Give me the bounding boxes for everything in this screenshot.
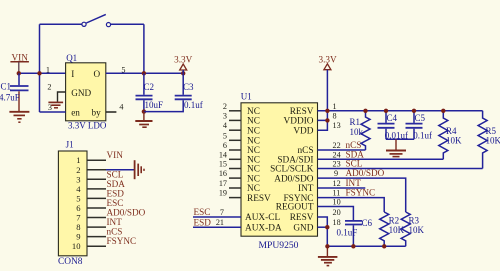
svg-text:4.7uF: 4.7uF — [0, 93, 20, 103]
wire AD0/SDO pin9 to R3 — [318, 178, 406, 212]
resistor R1 — [350, 111, 371, 150]
power port 3.3V (regulator output) — [174, 55, 192, 74]
svg-text:10K: 10K — [446, 136, 462, 146]
junction pin18 — [325, 225, 329, 229]
svg-text:NC: NC — [247, 137, 260, 147]
J1 pin stubs — [87, 160, 106, 246]
capacitor C6 — [337, 218, 373, 247]
wire J1.2 to earth — [106, 169, 135, 171]
svg-text:FSYNC: FSYNC — [346, 188, 376, 198]
svg-text:AD0/SDO: AD0/SDO — [274, 174, 314, 184]
svg-text:10K: 10K — [486, 136, 500, 146]
wire bottom ground rail — [327, 245, 405, 247]
svg-text:1: 1 — [333, 102, 337, 111]
svg-text:18: 18 — [333, 218, 341, 227]
svg-text:GND: GND — [71, 88, 91, 98]
junction C2 node — [142, 71, 146, 75]
junction R1/rail — [363, 109, 367, 113]
IC U1 MPU9250 — [241, 103, 318, 236]
svg-text:GND: GND — [293, 223, 313, 233]
svg-text:INT: INT — [298, 184, 314, 194]
svg-text:SCL/SCLK: SCL/SCLK — [270, 165, 314, 175]
svg-text:24: 24 — [333, 150, 341, 159]
svg-text:3: 3 — [48, 103, 52, 112]
svg-text:1: 1 — [76, 155, 80, 165]
svg-text:10: 10 — [72, 241, 81, 251]
svg-text:10K: 10K — [409, 225, 425, 235]
resistor R3 — [401, 212, 424, 246]
svg-text:C3: C3 — [183, 82, 194, 92]
svg-text:en: en — [71, 108, 80, 118]
switch lever — [86, 14, 106, 23]
svg-text:4: 4 — [119, 102, 123, 111]
svg-text:AD0/SDO: AD0/SDO — [346, 168, 385, 178]
U1 left pin numbers — [216, 102, 227, 227]
svg-text:FSYNC: FSYNC — [107, 236, 137, 246]
wire 3.3V rail — [318, 110, 483, 112]
svg-text:NC: NC — [247, 117, 260, 127]
svg-text:7: 7 — [220, 208, 224, 217]
svg-text:10uF: 10uF — [145, 100, 164, 110]
svg-text:3: 3 — [76, 174, 80, 184]
capacitor C4 — [378, 111, 409, 141]
ground under C4/C5 — [386, 139, 406, 156]
svg-text:by: by — [92, 108, 102, 118]
svg-text:ESC: ESC — [194, 207, 211, 217]
svg-text:6: 6 — [223, 141, 227, 150]
svg-text:C4: C4 — [387, 113, 398, 123]
junction R2 bottom — [382, 244, 386, 248]
svg-text:10k: 10k — [350, 127, 364, 137]
svg-text:15: 15 — [219, 160, 227, 169]
wire SCL pin23 to R5 — [318, 168, 483, 170]
svg-text:I: I — [71, 69, 74, 79]
svg-text:17: 17 — [219, 179, 227, 188]
svg-text:NC: NC — [247, 165, 260, 175]
ground bottom right — [318, 246, 338, 265]
resistor R4 — [439, 111, 462, 160]
svg-text:14: 14 — [219, 150, 227, 159]
svg-text:9: 9 — [334, 169, 338, 178]
wire en pin3 to switch leg — [40, 111, 66, 113]
capacitor C1 — [0, 73, 29, 111]
wire GND pin18 — [318, 226, 328, 228]
svg-text:VDD: VDD — [293, 126, 313, 136]
wire INT pin12 — [318, 187, 366, 189]
svg-text:C2: C2 — [144, 82, 155, 92]
svg-text:6: 6 — [76, 203, 81, 213]
power port 3.3V (U1 rail) — [319, 54, 337, 110]
ground under C2 — [135, 112, 152, 128]
svg-text:ESD: ESD — [194, 217, 212, 227]
wire ESD to AUX-DA — [193, 226, 241, 228]
svg-text:J1: J1 — [66, 139, 74, 149]
svg-text:5: 5 — [223, 131, 227, 140]
svg-text:R1: R1 — [350, 117, 361, 127]
switch S contacts — [82, 22, 86, 26]
wire top rail with switch legs — [40, 24, 144, 112]
svg-text:C5: C5 — [415, 113, 426, 123]
capacitor C2 — [136, 73, 164, 111]
svg-text:13: 13 — [333, 121, 341, 130]
svg-text:9: 9 — [76, 232, 80, 242]
wire ESC to AUX-CL — [193, 216, 241, 218]
wire VIN to Q1 pin1 — [19, 72, 66, 74]
svg-text:NC: NC — [247, 174, 260, 184]
junction ground rail left — [325, 244, 329, 248]
svg-text:O: O — [94, 69, 101, 79]
svg-text:2: 2 — [76, 165, 80, 175]
svg-text:RESV: RESV — [290, 107, 314, 117]
wire FSYNC pin11 to R2 — [318, 198, 385, 212]
svg-text:VIN: VIN — [107, 150, 124, 160]
svg-text:INT: INT — [346, 178, 362, 188]
svg-text:AUX-CL: AUX-CL — [245, 213, 280, 223]
svg-text:0.1uf: 0.1uf — [184, 100, 203, 110]
svg-text:16: 16 — [219, 169, 227, 178]
svg-text:SCL: SCL — [107, 169, 124, 179]
svg-text:Q1: Q1 — [66, 53, 77, 63]
svg-text:19: 19 — [219, 189, 227, 198]
svg-text:MPU9250: MPU9250 — [259, 240, 299, 251]
svg-text:AD0/SDO: AD0/SDO — [107, 208, 146, 218]
junction C4/rail — [384, 109, 388, 113]
svg-text:0.1uf: 0.1uf — [413, 131, 432, 141]
earth ground at J1.2 (rotated) — [135, 160, 144, 179]
svg-text:NC: NC — [247, 126, 260, 136]
svg-text:4: 4 — [76, 184, 81, 194]
svg-text:11: 11 — [333, 189, 341, 198]
svg-text:1: 1 — [46, 65, 50, 74]
svg-text:C1: C1 — [1, 82, 12, 92]
junction R4/rail — [441, 109, 445, 113]
svg-text:NC: NC — [247, 107, 260, 117]
svg-text:CON8: CON8 — [58, 257, 83, 267]
U1 pin names — [245, 107, 282, 233]
svg-text:2: 2 — [223, 102, 227, 111]
pin stub by pin4 — [106, 111, 117, 113]
regulator Q1 — [66, 63, 106, 121]
svg-text:3.3V: 3.3V — [319, 54, 337, 64]
svg-text:10: 10 — [333, 198, 341, 207]
wire RESV pin20 down — [318, 217, 328, 246]
svg-text:0.1uF: 0.1uF — [337, 227, 358, 237]
svg-text:21: 21 — [216, 218, 224, 227]
svg-text:ESD: ESD — [107, 188, 125, 198]
svg-text:22: 22 — [333, 141, 341, 150]
wire nCS pin22 to R1 — [318, 149, 366, 151]
svg-text:20: 20 — [333, 208, 341, 217]
power port VIN — [10, 52, 29, 73]
junction rail/pin1 — [325, 109, 329, 113]
junction C6 bottom — [351, 244, 355, 248]
wire Q1 pin2 to ground — [58, 92, 66, 102]
svg-text:VDDIO: VDDIO — [284, 117, 314, 127]
svg-text:AUX-DA: AUX-DA — [245, 223, 282, 233]
svg-text:8: 8 — [76, 222, 80, 232]
capacitor C3 — [175, 73, 203, 110]
junction C2 bottom — [142, 109, 146, 113]
svg-text:3.3V LDO: 3.3V LDO — [68, 121, 107, 131]
svg-text:R5: R5 — [486, 126, 497, 136]
wire C4-C5 bottoms — [386, 138, 414, 140]
resistor R5 — [478, 111, 500, 169]
U1 left pin stubs — [229, 111, 241, 198]
svg-text:R4: R4 — [446, 126, 457, 136]
svg-text:U1: U1 — [241, 92, 252, 102]
junction pin8 — [325, 118, 329, 122]
svg-text:23: 23 — [333, 160, 341, 169]
svg-text:5: 5 — [76, 193, 80, 203]
resistor R2 — [380, 212, 405, 246]
svg-text:INT: INT — [107, 217, 123, 227]
svg-text:4: 4 — [223, 121, 227, 130]
svg-text:SDA: SDA — [107, 179, 126, 189]
junction C3 node — [181, 71, 185, 75]
svg-text:SCL: SCL — [346, 159, 363, 169]
svg-text:REGOUT: REGOUT — [276, 203, 314, 213]
svg-text:nCS: nCS — [107, 227, 123, 237]
svg-text:7: 7 — [76, 213, 81, 223]
junction switch left leg — [37, 71, 41, 75]
ground under C1 — [9, 112, 29, 122]
wire REGOUT pin10 to C6 — [318, 207, 354, 221]
junction VIN/C1 — [17, 71, 21, 75]
wire C2 bottom to C3 bottom — [144, 100, 183, 111]
svg-text:2: 2 — [47, 82, 51, 91]
svg-text:8: 8 — [333, 111, 337, 120]
wire SDA pin24 to R4 — [318, 158, 444, 160]
junction C5/rail — [412, 109, 416, 113]
svg-text:12: 12 — [333, 179, 341, 188]
svg-text:RESV: RESV — [247, 194, 271, 204]
svg-text:VIN: VIN — [12, 52, 29, 62]
capacitor C5 — [406, 111, 433, 141]
svg-text:ESC: ESC — [107, 198, 124, 208]
wire pins 8,13 tie — [318, 111, 328, 130]
J1 pin numbers — [72, 155, 81, 251]
svg-text:3: 3 — [223, 111, 227, 120]
svg-text:RESV: RESV — [290, 213, 314, 223]
connector J1 — [58, 151, 87, 256]
ground at Q1 pin2 — [48, 102, 63, 107]
wire Q1 output to 3.3V — [106, 72, 183, 74]
U1 right pin numbers — [333, 102, 341, 227]
svg-text:C6: C6 — [362, 218, 373, 228]
svg-text:NC: NC — [247, 184, 260, 194]
